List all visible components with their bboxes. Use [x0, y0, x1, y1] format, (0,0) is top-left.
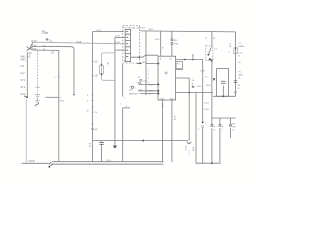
star on y92.5 wire — [192, 86, 195, 88]
svg-text:IG: IG — [205, 77, 208, 79]
svg-text:W-B: W-B — [205, 109, 210, 111]
dashed service line x=37.5 — [37, 51, 39, 94]
svg-text:B: B — [232, 130, 234, 132]
svg-text:15A: 15A — [143, 79, 147, 82]
svg-text:2.0L: 2.0L — [239, 53, 244, 55]
wire long horizontal y140.6 from V1 to Va — [93, 140, 188, 142]
svg-text:W-R: W-R — [142, 62, 147, 64]
svg-text:1K: 1K — [95, 112, 98, 114]
svg-text:15A: 15A — [174, 42, 178, 45]
svg-text:1: 1 — [60, 97, 62, 100]
svg-text:W: W — [239, 62, 242, 64]
fuse symbol circles — [171, 39, 173, 41]
svg-text:1: 1 — [54, 77, 56, 79]
svg-text:1: 1 — [135, 88, 137, 90]
ground link bottom right — [196, 162, 220, 164]
svg-text:B: B — [206, 38, 208, 40]
left column junction mark — [24, 96, 27, 98]
vertical to ECU top pin1 — [160, 31, 162, 56]
svg-text:W-B: W-B — [197, 86, 202, 88]
wire H1 top-left horizontal to connector block — [93, 31, 124, 33]
svg-text:B: B — [162, 48, 164, 50]
svg-text:IG2: IG2 — [21, 72, 26, 75]
svg-text:B-R: B-R — [139, 89, 143, 91]
svg-text:SW: SW — [232, 127, 235, 129]
wire V_c down from y59.5 — [202, 60, 204, 164]
svg-text:NSW: NSW — [149, 91, 154, 93]
component box B right-middle — [217, 69, 229, 97]
svg-text:1C: 1C — [95, 61, 98, 64]
svg-text:W-B: W-B — [32, 48, 37, 51]
wire from connector block bottom cell to ECU — [131, 55, 158, 57]
svg-text:1.25B: 1.25B — [42, 32, 49, 35]
connector star symbol — [46, 38, 49, 40]
connector block inner column — [125, 29, 130, 61]
junction dot x188 — [188, 92, 190, 94]
wire V8 right corner down — [235, 32, 237, 96]
svg-text:W: W — [185, 147, 188, 149]
bottom-left box bottom edge — [22, 162, 49, 164]
node A end dot of bent wire — [73, 94, 75, 96]
fuse on V8 — [234, 48, 237, 54]
svg-text:B: B — [239, 55, 241, 57]
svg-text:W: W — [87, 111, 90, 113]
svg-text:B-Y: B-Y — [139, 83, 143, 85]
svg-text:M: M — [230, 46, 232, 48]
svg-text:B: B — [239, 77, 241, 79]
wire V1 long vertical from corner down to ground bus — [92, 32, 94, 162]
svg-text:1: 1 — [148, 70, 150, 72]
svg-text:B: B — [238, 88, 240, 90]
svg-text:AMP: AMP — [129, 93, 134, 96]
svg-text:5: 5 — [29, 56, 31, 59]
svg-text:ST: ST — [138, 77, 141, 79]
svg-text:FC: FC — [177, 64, 180, 66]
svg-text:ACC: ACC — [21, 93, 26, 96]
svg-text:W-R: W-R — [149, 29, 154, 31]
svg-text:1: 1 — [120, 104, 122, 106]
svg-text:L: L — [222, 129, 224, 131]
ECU box U1 — [158, 56, 176, 100]
connector ring on V1 — [92, 128, 94, 130]
wire V6 down to ground — [114, 53, 116, 146]
cell inner marks — [126, 31, 128, 57]
svg-text:B-W: B-W — [32, 40, 38, 43]
svg-text:1: 1 — [205, 123, 207, 125]
svg-text:W-B: W-B — [175, 115, 177, 120]
svg-text:A: A — [230, 43, 232, 46]
svg-text:W-B: W-B — [77, 41, 82, 44]
svg-text:R: R — [222, 127, 224, 129]
svg-text:R: R — [107, 63, 109, 66]
resistor R box — [100, 66, 104, 74]
fuse column arrow marks — [137, 62, 140, 64]
wire V8 bottom horizontal to V7 — [213, 95, 236, 97]
small box right of ECU — [176, 62, 183, 70]
svg-text:STA: STA — [149, 83, 154, 86]
wire H5 to junction on V5 — [46, 96, 59, 98]
wire H3 fan line 2 with rounded bend down — [33, 46, 74, 93]
svg-text:FL: FL — [239, 43, 242, 45]
svg-text:B: B — [38, 87, 40, 89]
svg-text:1A: 1A — [124, 60, 127, 63]
V7 junction dots below switch — [210, 59, 212, 61]
chevron connector below V_a end — [187, 142, 191, 144]
svg-text:W: W — [213, 38, 216, 40]
capacitor C1 hanging below wire — [101, 141, 103, 162]
svg-text:FL: FL — [239, 72, 242, 74]
connector stub wires left — [115, 37, 125, 53]
left column faint V4 down to bottom box — [25, 99, 27, 163]
svg-text:1D: 1D — [95, 75, 98, 78]
svg-text:IG1: IG1 — [21, 65, 26, 68]
svg-text:A/C: A/C — [129, 89, 133, 92]
svg-text:MAIN: MAIN — [239, 45, 245, 48]
svg-text:W-B: W-B — [206, 85, 211, 87]
V1 tick labels — [91, 62, 93, 125]
svg-text:F: F — [214, 127, 216, 129]
wire H2 fan line 1 long horizontal to connector block pin 3 — [33, 42, 125, 44]
wire V7 — [211, 32, 213, 118]
svg-text:ST: ST — [214, 49, 217, 51]
svg-text:TO: TO — [129, 87, 132, 89]
svg-text:+B: +B — [159, 58, 162, 60]
ECU bottom pins E1 E2 — [163, 100, 172, 162]
V5 mid tick — [58, 76, 60, 78]
svg-text:ST2: ST2 — [21, 86, 26, 89]
connector block dashed enclosure — [123, 26, 140, 64]
svg-text:B-R: B-R — [60, 101, 64, 103]
wire H4 fan line 3 to small box corner — [33, 50, 59, 162]
svg-text:B-W: B-W — [32, 44, 38, 47]
vertical to ECU top pin2 with fuse — [171, 31, 173, 56]
svg-text:3: 3 — [148, 78, 150, 80]
V_c connector dot and ring — [202, 122, 204, 124]
svg-text:MAIN: MAIN — [29, 160, 35, 163]
svg-text:AM1: AM1 — [239, 74, 244, 77]
fan connector chevron — [27, 47, 30, 51]
vertical x122.7 from connector block bottom — [122, 64, 124, 97]
svg-text:TO CIRCUIT OPN RLY: TO CIRCUIT OPN RLY — [123, 28, 146, 30]
fuse column x=147.2 — [145, 31, 147, 95]
right pin y59.5 junction dots — [184, 59, 186, 61]
svg-text:B: B — [185, 149, 187, 151]
svg-text:B: B — [192, 83, 194, 85]
ECU left pin horizontals — [139, 64, 159, 94]
svg-text:2: 2 — [228, 51, 230, 53]
svg-text:1G: 1G — [50, 41, 53, 43]
ECU right pin wires — [176, 59, 203, 61]
svg-text:W-B: W-B — [107, 160, 112, 162]
wire top main horizontal right section — [140, 31, 236, 32]
bus start marks — [49, 162, 53, 166]
svg-text:2: 2 — [148, 74, 150, 76]
svg-text:W-B: W-B — [134, 93, 139, 95]
resistor branch loop — [101, 53, 115, 80]
svg-text:W-B: W-B — [97, 30, 102, 32]
svg-text:(A): (A) — [95, 128, 98, 131]
svg-text:W-B: W-B — [90, 142, 92, 147]
svg-text:W: W — [238, 85, 241, 87]
relay switch dashed box — [206, 46, 213, 60]
svg-text:W-R: W-R — [155, 39, 160, 41]
switch branch 2 — [219, 118, 221, 163]
arrow triangle on V7 — [213, 78, 216, 81]
V8 component marks — [234, 81, 237, 83]
svg-text:W: W — [192, 80, 195, 82]
svg-text:W-B: W-B — [205, 103, 210, 105]
wire corner x122.7 lower — [123, 108, 130, 162]
left column V3 — [26, 52, 28, 97]
svg-text:AM2: AM2 — [21, 59, 27, 62]
ground triangle under V6 — [113, 146, 117, 149]
switch branch 1 — [211, 118, 213, 163]
svg-text:R: R — [214, 129, 216, 131]
left fan connector converge — [30, 42, 34, 50]
svg-text:ST1: ST1 — [21, 79, 26, 82]
svg-text:3: 3 — [87, 95, 89, 97]
ECU left pin dark squares — [158, 63, 160, 65]
wire V_b — [195, 93, 197, 164]
ECU plus mark — [165, 71, 168, 74]
svg-text:2: 2 — [124, 98, 126, 100]
switch branch 3 — [230, 118, 232, 138]
svg-text:EFI: EFI — [174, 40, 178, 42]
svg-text:RR: RR — [232, 124, 236, 126]
svg-text:2: 2 — [198, 129, 200, 131]
svg-text:1B: 1B — [51, 52, 54, 55]
svg-text:W-B: W-B — [193, 146, 195, 151]
ground bus double lines — [52, 162, 163, 165]
svg-text:1H: 1H — [43, 45, 46, 47]
svg-text:B1: B1 — [170, 58, 173, 60]
svg-text:B-W: B-W — [201, 71, 206, 73]
bottom right rail — [212, 117, 236, 119]
arrowhead connector on wire — [141, 139, 144, 141]
svg-text:5: 5 — [87, 101, 89, 103]
